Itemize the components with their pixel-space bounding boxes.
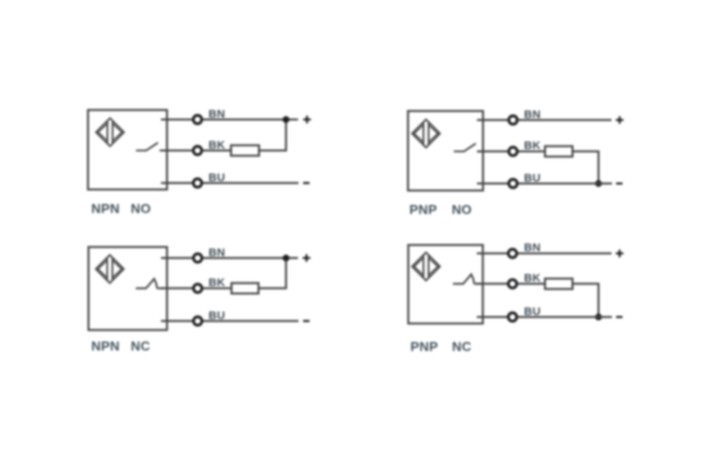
svg-text:NO: NO — [452, 202, 472, 217]
sensor box (NPN NO) — [88, 110, 167, 190]
resistor load (PNP NC) — [545, 279, 573, 289]
terminal + (PNP NO) — [616, 116, 624, 124]
terminal BN (NPN NC) — [194, 254, 202, 262]
switch NO contact (PNP NO) — [454, 144, 481, 152]
svg-text:BK: BK — [524, 273, 541, 285]
svg-text:NO: NO — [131, 201, 151, 216]
svg-text:BU: BU — [524, 172, 541, 184]
resistor load (PNP NO) — [545, 146, 573, 156]
wire BU (NPN NC) — [161, 320, 299, 322]
wire BN (NPN NC) — [161, 257, 298, 259]
wire BN (NPN NO) — [161, 119, 298, 121]
wire load to - rail (PNP NO) — [573, 151, 599, 183]
switch NC contact (NPN NC) — [136, 278, 163, 288]
svg-text:BN: BN — [524, 109, 541, 121]
wire BN (PNP NO) — [477, 119, 612, 121]
svg-text:BK: BK — [209, 139, 226, 151]
svg-text:NC: NC — [131, 338, 151, 353]
wire BK (NPN NO) — [161, 150, 231, 152]
svg-text:BU: BU — [209, 172, 226, 184]
junction on BN rail (NPN NC) — [283, 255, 290, 262]
proximity sensor symbol (PNP NC) — [412, 253, 440, 281]
svg-text:PNP: PNP — [409, 202, 437, 217]
resistor load (NPN NO) — [231, 145, 259, 155]
wire load to + rail (NPN NO) — [259, 120, 286, 151]
svg-text:NPN: NPN — [91, 201, 119, 216]
svg-text:BN: BN — [209, 247, 226, 259]
terminal - (NPN NO) — [303, 182, 309, 184]
terminal BK (PNP NO) — [509, 147, 517, 155]
wire BN (PNP NC) — [477, 252, 612, 254]
terminal BK (NPN NC) — [194, 284, 202, 292]
resistor load (NPN NC) — [232, 283, 259, 293]
terminal BU (PNP NC) — [508, 313, 516, 321]
wire BK (PNP NC) — [477, 283, 545, 285]
terminal BK (NPN NO) — [193, 146, 201, 154]
wire BK (NPN NC) — [161, 287, 232, 289]
svg-text:NC: NC — [452, 339, 472, 354]
terminal BN (PNP NO) — [509, 116, 517, 124]
proximity sensor symbol (NPN NO) — [96, 118, 124, 146]
terminal BU (NPN NO) — [193, 179, 201, 187]
junction on BN rail (NPN NO) — [283, 116, 290, 123]
switch NO contact (NPN NO) — [136, 143, 163, 151]
sensor box (NPN NC) — [89, 247, 168, 330]
svg-text:BK: BK — [524, 140, 541, 152]
wire BU (PNP NO) — [477, 183, 612, 185]
junction on BU rail (PNP NC) — [595, 314, 602, 321]
wire load to + rail (NPN NC) — [259, 258, 287, 288]
terminal - (PNP NO) — [616, 182, 622, 184]
terminal BK (PNP NC) — [508, 280, 516, 288]
terminal BN (PNP NC) — [508, 249, 516, 257]
terminal BU (NPN NC) — [194, 317, 202, 325]
proximity sensor symbol (PNP NO) — [412, 120, 440, 148]
svg-text:PNP: PNP — [410, 339, 438, 354]
svg-text:BK: BK — [209, 277, 226, 289]
proximity sensor symbol (NPN NC) — [96, 255, 124, 283]
switch NC contact (PNP NC) — [453, 274, 480, 284]
wire load to - rail (PNP NC) — [573, 284, 599, 317]
svg-text:NPN: NPN — [91, 338, 119, 353]
terminal - (NPN NC) — [303, 320, 309, 322]
wire BU (NPN NO) — [161, 182, 299, 184]
sensor box (PNP NO) — [408, 111, 483, 191]
terminal BN (NPN NO) — [193, 115, 201, 123]
terminal BU (PNP NO) — [509, 179, 517, 187]
svg-text:BU: BU — [209, 310, 226, 322]
svg-text:BN: BN — [524, 242, 541, 254]
junction on BU rail (PNP NO) — [595, 180, 602, 187]
terminal + (NPN NO) — [303, 116, 311, 124]
svg-text:BN: BN — [209, 108, 226, 120]
svg-text:BU: BU — [524, 306, 541, 318]
terminal - (PNP NC) — [616, 316, 622, 318]
sensor box (PNP NC) — [408, 245, 483, 324]
wire BK (PNP NO) — [477, 150, 545, 152]
terminal + (PNP NC) — [616, 250, 624, 258]
terminal + (NPN NC) — [303, 254, 311, 262]
wire BU (PNP NC) — [477, 316, 612, 318]
